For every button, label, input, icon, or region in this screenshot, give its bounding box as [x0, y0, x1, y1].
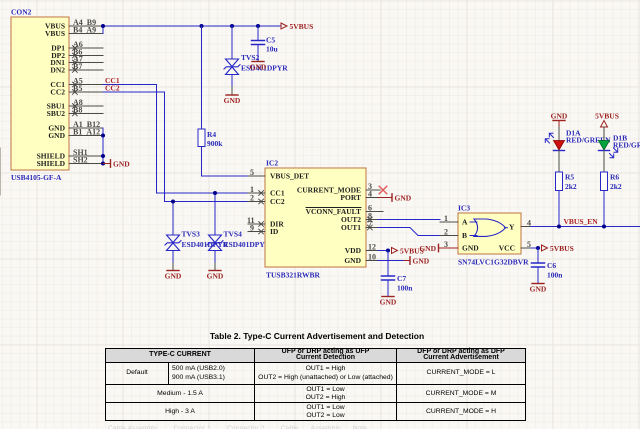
svg-text:3: 3 — [444, 240, 448, 249]
svg-text:SN74LVC1G32DBVR: SN74LVC1G32DBVR — [458, 258, 529, 267]
junction R6/VBUS_EN — [602, 225, 606, 229]
power port GND at PORT pin4 — [378, 193, 412, 202]
svg-text:CON2: CON2 — [11, 8, 32, 17]
svg-text:100n: 100n — [397, 284, 413, 293]
svg-text:TVS2: TVS2 — [241, 53, 260, 62]
svg-text:GND: GND — [48, 131, 65, 140]
IC3 pin names — [462, 218, 479, 253]
svg-text:GND: GND — [413, 256, 430, 265]
IC2 VCONN_FAULT overline — [306, 207, 361, 209]
svg-text:SBU2: SBU2 — [47, 109, 66, 118]
svg-text:10u: 10u — [266, 45, 278, 54]
IC2 pin names — [270, 172, 309, 237]
svg-text:GND: GND — [207, 272, 224, 281]
capacitor C6 — [532, 248, 564, 283]
svg-text:TUSB321RWBR: TUSB321RWBR — [266, 271, 320, 280]
junction VBUS pins — [101, 24, 105, 28]
svg-text:GND: GND — [165, 272, 182, 281]
junction R5/VBUS_EN — [557, 225, 561, 229]
wire OUT2 to IC3 A — [378, 219, 440, 221]
svg-text:2: 2 — [444, 227, 448, 236]
partial cropped text at bottom — [108, 425, 532, 429]
svg-text:GND: GND — [462, 244, 479, 253]
svg-text:C6: C6 — [547, 261, 556, 270]
junction CC2/TVS3 — [171, 200, 175, 204]
power port GND at shield — [103, 159, 130, 168]
junction SH2 — [101, 162, 105, 166]
svg-text:GND: GND — [419, 244, 436, 253]
resistor R6 — [601, 172, 622, 227]
svg-text:9: 9 — [250, 223, 254, 232]
power port GND under TVS4 — [207, 271, 224, 281]
svg-text:RED/GR: RED/GR — [613, 141, 640, 150]
svg-text:DN2: DN2 — [50, 66, 65, 75]
power port 5VBUS top — [281, 22, 313, 31]
power port GND at IC2 pin10 — [378, 256, 430, 265]
svg-text:B4 A9: B4 A9 — [73, 25, 96, 34]
power port GND under C5 — [250, 62, 267, 72]
connector CON2 body — [11, 8, 69, 183]
svg-text:CC2: CC2 — [50, 88, 65, 97]
svg-text:CC2: CC2 — [270, 197, 285, 206]
svg-text:900k: 900k — [207, 139, 223, 148]
power port 5VBUS at VDD — [392, 246, 424, 255]
wire OUT1 to IC3 B — [378, 228, 440, 236]
svg-text:2: 2 — [250, 193, 254, 202]
LED D1A — [545, 127, 611, 172]
TVS diode TVS3 — [165, 230, 229, 271]
IC3 pin stubs — [440, 222, 531, 248]
TVS diode TVS2 wire — [231, 26, 233, 59]
svg-text:B5: B5 — [73, 84, 82, 93]
svg-text:2k2: 2k2 — [610, 182, 622, 191]
junction R4 branch — [200, 24, 204, 28]
svg-text:GND: GND — [551, 111, 568, 120]
wire CC2 net — [103, 92, 248, 202]
svg-text:GND: GND — [395, 193, 412, 202]
svg-text:GND: GND — [224, 96, 241, 105]
svg-text:100n: 100n — [547, 271, 563, 280]
svg-text:1: 1 — [444, 214, 448, 223]
power port GND under TVS3 — [165, 271, 182, 281]
IC2 pin numbers — [247, 168, 376, 261]
svg-text:B7: B7 — [73, 62, 82, 71]
svg-text:4: 4 — [527, 218, 531, 227]
svg-text:PORT: PORT — [340, 193, 361, 202]
svg-text:SH2: SH2 — [73, 155, 88, 164]
svg-text:GND: GND — [344, 256, 361, 265]
svg-text:VCC: VCC — [499, 244, 515, 253]
svg-text:ESD401DPYR: ESD401DPYR — [224, 240, 271, 249]
IC IC3 body SN74LVC1G32DBVR — [458, 204, 529, 267]
wire VBUS rail to 5VBUS — [103, 26, 281, 34]
power port 5VBUS above D1B — [595, 111, 619, 127]
svg-text:TVS3: TVS3 — [182, 230, 201, 239]
TVS diode TVS4 — [207, 230, 271, 271]
svg-text:R5: R5 — [565, 173, 574, 182]
wire VDD junction — [378, 250, 388, 252]
junction C5 branch — [256, 24, 260, 28]
svg-text:R6: R6 — [610, 173, 619, 182]
svg-text:IC2: IC2 — [266, 159, 278, 168]
svg-text:SHIELD: SHIELD — [37, 159, 66, 168]
svg-text:VBUS: VBUS — [45, 29, 65, 38]
svg-text:C5: C5 — [266, 36, 275, 45]
wire Y to VBUS_EN — [531, 226, 640, 228]
TVS diode TVS2 — [224, 53, 288, 95]
TVS3 top wire — [172, 202, 174, 236]
junction TVS2 branch — [230, 24, 234, 28]
svg-text:R4: R4 — [207, 130, 216, 139]
wire CON2 GND vertical — [102, 128, 104, 164]
IC2 right pin stubs — [366, 190, 383, 261]
svg-text:7: 7 — [368, 219, 372, 228]
svg-text:GND: GND — [380, 298, 397, 307]
IC3 pin numbers — [444, 214, 531, 249]
svg-text:GND: GND — [530, 285, 547, 294]
svg-text:VBUS_EN: VBUS_EN — [564, 217, 599, 226]
power port GND under C6 — [530, 284, 547, 294]
IC IC2 body TUSB321RWBR — [265, 159, 366, 280]
no-connect X on pin 3 — [379, 186, 387, 194]
capacitor C7 — [382, 251, 414, 297]
left edge artifact — [0, 148, 2, 195]
svg-text:2k2: 2k2 — [565, 182, 577, 191]
wire VCC junction — [531, 247, 538, 249]
svg-text:4: 4 — [368, 189, 372, 198]
CON2 no-ERC x marks — [73, 46, 78, 116]
svg-text:5: 5 — [250, 168, 254, 177]
svg-text:5VBUS: 5VBUS — [290, 22, 314, 31]
IC2 left pin stubs — [248, 176, 265, 232]
power port GND under TVS2 — [224, 95, 241, 105]
svg-text:GND: GND — [250, 63, 267, 72]
power port GND at IC3 pin3 — [419, 244, 458, 253]
svg-text:Y: Y — [509, 223, 515, 232]
svg-text:B8: B8 — [73, 105, 82, 114]
junction SH1 — [101, 154, 105, 158]
table title — [0, 331, 634, 341]
power port GND under C7 — [380, 297, 397, 307]
resistor R5 — [556, 172, 577, 227]
svg-text:10: 10 — [368, 252, 376, 261]
svg-text:B: B — [462, 231, 467, 240]
wire CC1 net — [103, 85, 248, 194]
svg-text:5VBUS: 5VBUS — [550, 244, 574, 253]
power port 5VBUS at VCC — [542, 244, 574, 253]
svg-text:C7: C7 — [397, 274, 406, 283]
svg-text:5VBUS: 5VBUS — [595, 111, 619, 120]
svg-text:IC3: IC3 — [458, 204, 470, 213]
capacitor C5 — [252, 26, 278, 61]
table body — [105, 348, 526, 421]
CON2 pin designators — [73, 18, 100, 165]
svg-text:ID: ID — [270, 227, 279, 236]
junction GND pin2 — [101, 134, 105, 138]
CON2 pin names — [37, 22, 66, 169]
svg-text:VDD: VDD — [345, 246, 362, 255]
power port GND above D1A — [551, 111, 568, 127]
svg-text:OUT1: OUT1 — [341, 223, 361, 232]
svg-text:A: A — [462, 218, 468, 227]
IC2 pin x marks — [259, 191, 373, 234]
svg-text:B1 A12: B1 A12 — [73, 127, 100, 136]
svg-text:GND: GND — [113, 159, 130, 168]
LED D1B — [599, 127, 640, 172]
svg-text:12: 12 — [368, 242, 376, 251]
svg-text:TVS4: TVS4 — [224, 230, 243, 239]
TVS4 top wire — [214, 193, 216, 235]
CON2 pin stubs — [69, 26, 103, 164]
junction CC1/TVS4 — [213, 191, 217, 195]
IC3 OR gate — [470, 219, 508, 236]
resistor R4 — [198, 26, 248, 176]
svg-text:5: 5 — [527, 240, 531, 249]
svg-text:VBUS_DET: VBUS_DET — [270, 172, 309, 181]
svg-text:USB4105-GF-A: USB4105-GF-A — [11, 173, 62, 182]
